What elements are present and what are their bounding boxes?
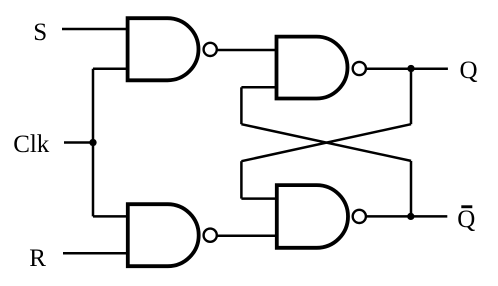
wire Q output (366, 67, 448, 70)
wire Qbar output (366, 215, 448, 218)
junction node Q (407, 65, 414, 72)
NAND gate U4 bubble (353, 210, 366, 223)
label Qbar (457, 205, 475, 233)
svg-text:Clk: Clk (13, 131, 50, 158)
junction Clk node (89, 139, 96, 146)
svg-text:S: S (33, 19, 47, 46)
NAND gate U1 body (128, 18, 199, 80)
wire U2 output to U4 lower input (217, 234, 277, 237)
svg-text:Q: Q (457, 206, 475, 233)
wire S input (62, 28, 128, 31)
NAND gate U2 bubble (204, 229, 217, 242)
wire right bus upper segment (410, 69, 413, 125)
wire right bus lower segment (410, 161, 413, 217)
wire diagonal from Q to U4 (241, 124, 411, 161)
wire R input (63, 252, 128, 255)
svg-text:R: R (29, 245, 46, 272)
wire left bus upper segment (240, 87, 243, 124)
wire Clk to U2 upper input (93, 215, 128, 218)
wire left bus lower segment (240, 161, 243, 198)
NAND gate U1 bubble (204, 43, 217, 56)
wire Clk input (64, 141, 93, 144)
NAND gate U4 body (277, 185, 348, 248)
NAND gate U3 body (277, 37, 348, 99)
wire feedback stub to U3 lower input (241, 86, 276, 89)
junction node Qbar (407, 213, 414, 220)
NAND gate U2 body (128, 204, 199, 266)
svg-text:Q: Q (460, 57, 478, 84)
wire diagonal from Qbar to U3 (241, 124, 411, 161)
wire feedback stub to U4 upper input (241, 197, 276, 200)
wire U1 output to U3 upper input (217, 49, 277, 52)
NAND gate U3 bubble (353, 62, 366, 75)
wire Clk to U1 lower input (93, 68, 128, 71)
wire Clk vertical bus (92, 69, 95, 217)
